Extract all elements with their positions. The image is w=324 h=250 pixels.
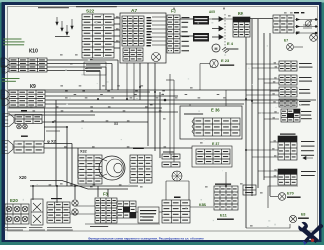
motor E4 symbol — [212, 44, 220, 52]
horn symbol B — [2, 141, 13, 154]
small connector boxes left of E37 — [162, 154, 180, 159]
lamp top right corner — [310, 34, 318, 42]
svg-text:Е7: Е7 — [284, 39, 288, 43]
wires S22 to A7 — [114, 17, 120, 19]
text under E70 — [287, 197, 301, 198]
fog lamp E70 symbol — [278, 193, 286, 201]
svg-text:Е 37: Е 37 — [212, 142, 219, 146]
round multi-pin connector — [172, 171, 182, 181]
right unit F19 header — [280, 134, 296, 135]
motor E4 hatch — [222, 47, 229, 53]
bottom connector box — [138, 207, 159, 223]
svg-text:К9: К9 — [30, 84, 36, 90]
left margin green note 1 — [3, 39, 25, 46]
svg-text:F3: F3 — [103, 192, 109, 197]
wire junction dots — [32, 86, 253, 187]
horizontal bus wires center — [8, 89, 279, 91]
unit X1B label — [21, 136, 28, 137]
fuse box F3 bottom grid — [95, 198, 117, 223]
dark connector box 2 — [193, 33, 209, 42]
adjacent grid with dark cells — [117, 201, 136, 218]
A7 bottom sub-grid — [123, 48, 143, 61]
text under A3 — [47, 227, 73, 230]
right block row 2 — [279, 75, 297, 85]
right vertical bus wires — [245, 37, 247, 228]
svg-text:Е 4: Е 4 — [227, 41, 234, 46]
grid B11 — [214, 186, 238, 210]
small lamps under block A — [17, 124, 22, 129]
fuse values text — [182, 17, 190, 51]
lamp E8 symbol — [289, 215, 296, 222]
junction dot on bus — [164, 99, 167, 102]
svg-text:Х3: Х3 — [114, 122, 118, 126]
horn symbol A — [3, 114, 14, 127]
connector X23 box — [243, 185, 256, 195]
svg-text:Х32: Х32 — [80, 150, 87, 154]
unit E36 box — [180, 106, 242, 139]
headlight lamp unit — [99, 156, 125, 180]
unit E36 inner text — [184, 114, 203, 115]
fuse table F3 — [167, 15, 180, 53]
right unit labels — [301, 141, 315, 156]
fan E23 symbol — [210, 59, 218, 67]
left margin green note 2 — [2, 78, 20, 82]
A7 lamp symbol — [152, 53, 161, 62]
text under E20 — [4, 227, 26, 230]
A7 inner grid — [122, 16, 144, 46]
repair site logo wrench and screwdriver — [298, 222, 323, 245]
right block row 3 — [279, 87, 297, 97]
text under E23 — [220, 65, 234, 66]
relay K9 block — [9, 90, 45, 107]
right block row 1 — [279, 61, 297, 71]
switch S5 labels — [294, 12, 299, 13]
horn unit block A — [15, 115, 42, 124]
right headlight module grid — [130, 155, 152, 183]
text under connector — [29, 227, 45, 230]
rheostat symbol — [305, 21, 311, 27]
text under F3 grid — [90, 226, 108, 227]
wires bottom center — [75, 205, 95, 207]
wire to lamp E7 — [294, 46, 303, 48]
svg-text:ff: ff — [223, 7, 225, 11]
unit E37 box — [192, 146, 232, 167]
relay K10 left horn symbols — [1, 58, 9, 67]
switch unit S22 table — [82, 14, 114, 58]
arrow symbol right — [303, 156, 313, 159]
lamp E7 — [287, 44, 294, 51]
text under E11 — [217, 219, 234, 220]
wire into K6 table — [209, 18, 233, 20]
svg-text:Функциональная схема наружного: Функциональная схема наружного освещения… — [88, 237, 204, 241]
control unit A7 box — [120, 13, 166, 63]
right block row 5 with dark cells — [281, 109, 300, 122]
switch S5 contact rows — [295, 19, 318, 21]
svg-text:Е 36: Е 36 — [211, 108, 220, 113]
right headlight module label — [133, 148, 144, 150]
text under E4 — [226, 49, 238, 50]
text box under S22 — [84, 62, 106, 75]
relay K10 block — [9, 58, 47, 72]
unit HB label — [21, 110, 27, 111]
wire from X20 — [30, 181, 128, 190]
wires F3 to dark boxes — [180, 18, 193, 20]
svg-text:Е11: Е11 — [220, 213, 228, 218]
svg-text:S22: S22 — [86, 9, 95, 14]
long wire under bottom blocks — [85, 223, 160, 225]
riser to B11 grid — [225, 172, 227, 186]
unit M8 label — [174, 197, 181, 199]
svg-text:К3Б: К3Б — [199, 203, 206, 207]
dashed separator — [224, 14, 226, 52]
relay K9 left horn symbols — [1, 90, 9, 99]
arrow symbols right of dark boxes — [212, 17, 223, 21]
headlight connector grid — [78, 155, 102, 184]
wires from horn unit B — [44, 143, 72, 145]
bus wire bottom left — [30, 185, 138, 187]
grid B11 header — [215, 184, 231, 185]
svg-text:φ Х2: φ Х2 — [47, 139, 57, 144]
relay grid right of K6 — [273, 15, 294, 33]
unit E36 inner grid with wavy edge — [192, 119, 194, 134]
wires from K10 to center — [47, 59, 118, 61]
wire E23 — [200, 63, 210, 65]
horn unit block B — [14, 141, 44, 153]
wires from block A — [42, 121, 148, 123]
side lamps bottom left — [72, 200, 78, 206]
wire drops from A7 bottom — [126, 63, 128, 100]
svg-text:Е20: Е20 — [10, 198, 18, 203]
scan speckles — [11, 11, 301, 227]
svg-text:Е 23: Е 23 — [221, 58, 230, 63]
svg-text:А05: А05 — [209, 10, 215, 14]
connector block with X marks — [31, 199, 43, 225]
A7 pin name column — [147, 17, 152, 46]
right unit block F19 — [278, 136, 297, 160]
connector label X — [163, 152, 174, 153]
right bus stubs — [246, 63, 279, 65]
wire K6 to relay grid — [250, 18, 273, 20]
right bottom block — [278, 169, 297, 185]
fuse list K6 table — [233, 17, 250, 37]
right block row 4 — [279, 99, 297, 107]
svg-text:Е8: Е8 — [301, 213, 305, 217]
unit A3 label — [51, 198, 62, 199]
bus drops into E36 — [189, 104, 191, 106]
wire rect bottom right — [268, 186, 298, 208]
svg-text:К10: К10 — [29, 49, 38, 55]
unit A3 block — [47, 202, 70, 223]
wire number tick labels — [30, 13, 300, 227]
dark connector box 1 — [193, 16, 209, 25]
lamp cluster E20 grid — [5, 204, 29, 224]
top title text — [38, 7, 69, 8]
svg-text:Е70: Е70 — [287, 192, 294, 196]
A7 right pin stubs — [152, 16, 166, 18]
svg-text:М: М — [215, 47, 218, 51]
wires from K9 to right — [45, 91, 150, 93]
vertical bus wires center — [55, 100, 57, 186]
unit M8 block — [162, 200, 190, 223]
wire M8 to B11 — [190, 206, 213, 208]
risers above M8 — [165, 181, 167, 200]
svg-text:Х20: Х20 — [19, 175, 27, 180]
top pin stubs with arrows — [56, 17, 73, 35]
